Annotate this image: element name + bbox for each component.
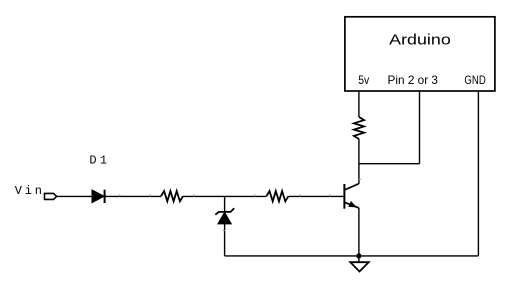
pin end tick transistor base bbox=[328, 194, 331, 196]
resistor R2 bbox=[266, 191, 288, 201]
pin end tick resistor R2 left bbox=[253, 194, 256, 196]
pin end tick collector bbox=[359, 178, 361, 181]
pin end tick resistor R2 right bbox=[298, 194, 301, 196]
wire GND pin vertical bbox=[477, 91, 479, 256]
svg-text:5v: 5v bbox=[358, 73, 369, 87]
pin end tick diode bbox=[118, 194, 121, 196]
zener diode Z1 bbox=[215, 208, 234, 215]
wire 5v pin to resistor R3 bbox=[358, 91, 360, 117]
wire resistor R1 to node A bbox=[183, 195, 266, 197]
wire tag to diode bbox=[57, 195, 92, 197]
wire emitter to bottom rail bbox=[358, 208, 360, 256]
bottom rail wire bbox=[225, 255, 479, 257]
wire diode to resistor R1 bbox=[105, 195, 161, 197]
wire zener to bottom rail bbox=[224, 224, 226, 256]
wire pin 2 or 3 to collector bbox=[359, 163, 420, 165]
wire pin 2 or 3 vertical bbox=[419, 91, 421, 164]
Arduino box U1 bbox=[345, 17, 495, 91]
transistor Q1 emitter bbox=[345, 202, 359, 208]
pin end tick zener bottom bbox=[223, 229, 225, 232]
pin end tick resistor R1 left bbox=[149, 194, 152, 196]
wire collector to resistor R3 bbox=[358, 139, 360, 184]
resistor R3 bbox=[354, 117, 364, 139]
svg-text:GND: GND bbox=[464, 73, 486, 87]
svg-text:Vin: Vin bbox=[15, 184, 42, 198]
junction dot bbox=[356, 253, 361, 258]
svg-text:Pin 2 or 3: Pin 2 or 3 bbox=[388, 73, 439, 87]
ground bbox=[350, 262, 368, 271]
transistor Q1 base bar bbox=[343, 184, 345, 209]
transistor Q1 collector bbox=[344, 184, 358, 190]
wire node A to zener bbox=[224, 196, 226, 212]
pin end tick resistor R1 right bbox=[192, 194, 195, 196]
wire resistor R2 to transistor base bbox=[288, 195, 344, 197]
diode D1 bbox=[92, 190, 104, 203]
connector tag Vin bbox=[45, 193, 57, 199]
ground stub bbox=[358, 256, 360, 262]
svg-text:Arduino: Arduino bbox=[389, 31, 451, 48]
resistor R1 bbox=[161, 191, 183, 201]
